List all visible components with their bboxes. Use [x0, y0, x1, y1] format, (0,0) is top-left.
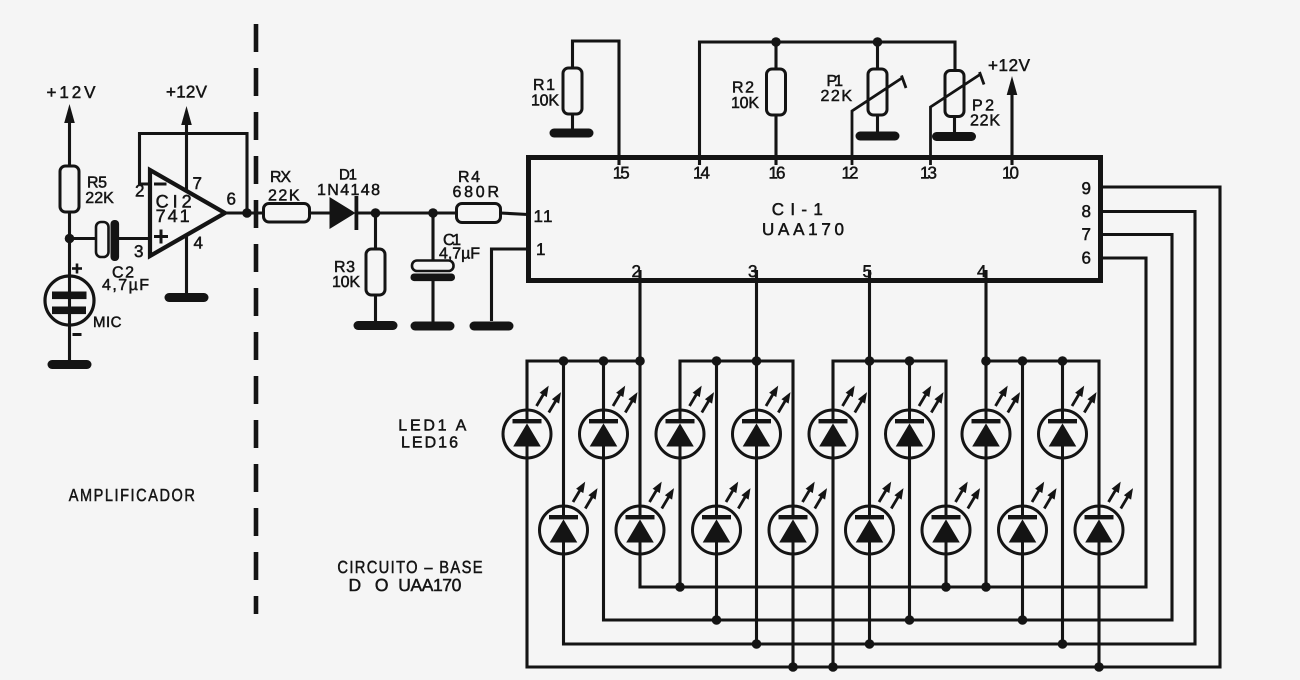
- svg-text:9: 9: [1082, 179, 1091, 198]
- svg-text:AMPLIFICADOR: AMPLIFICADOR: [69, 485, 196, 505]
- svg-text:10K: 10K: [531, 93, 559, 110]
- svg-text:2: 2: [632, 262, 641, 281]
- svg-text:4,7µF: 4,7µF: [102, 277, 149, 294]
- svg-text:10K: 10K: [332, 274, 360, 291]
- svg-text:R5: R5: [87, 175, 107, 192]
- svg-text:5: 5: [863, 262, 872, 281]
- svg-text:22K: 22K: [821, 88, 853, 105]
- svg-text:6: 6: [227, 190, 236, 209]
- svg-text:1: 1: [536, 240, 545, 259]
- svg-text:680R: 680R: [453, 184, 500, 201]
- svg-text:+12V: +12V: [988, 56, 1031, 75]
- svg-text:22K: 22K: [970, 113, 1000, 130]
- svg-text:3: 3: [134, 242, 143, 261]
- svg-text:R2: R2: [732, 80, 754, 97]
- svg-text:12: 12: [842, 164, 859, 183]
- svg-text:3: 3: [748, 262, 757, 281]
- svg-text:R1: R1: [533, 77, 555, 94]
- svg-text:D1: D1: [339, 167, 357, 184]
- svg-text:LED16: LED16: [401, 435, 458, 452]
- svg-text:CIRCUITO – BASE: CIRCUITO – BASE: [337, 557, 482, 577]
- svg-text:10: 10: [1002, 164, 1019, 183]
- svg-text:+12V: +12V: [166, 83, 208, 102]
- svg-text:4,7µF: 4,7µF: [439, 246, 480, 263]
- svg-text:10K: 10K: [731, 95, 759, 112]
- svg-text:RX: RX: [270, 169, 291, 186]
- svg-text:4: 4: [194, 234, 203, 253]
- svg-text:MIC: MIC: [93, 314, 122, 331]
- svg-text:UAA170: UAA170: [398, 575, 461, 595]
- svg-text:+12V: +12V: [47, 83, 97, 102]
- svg-text:13: 13: [920, 164, 937, 183]
- svg-text:16: 16: [769, 164, 786, 183]
- svg-text:15: 15: [613, 164, 630, 183]
- svg-text:22K: 22K: [268, 188, 300, 205]
- svg-text:4: 4: [977, 262, 986, 281]
- svg-text:6: 6: [1082, 249, 1091, 268]
- svg-text:7: 7: [1082, 225, 1091, 244]
- svg-text:11: 11: [534, 207, 553, 226]
- svg-text:8: 8: [1082, 202, 1091, 221]
- svg-text:22K: 22K: [85, 190, 114, 207]
- svg-text:14: 14: [693, 164, 710, 183]
- svg-text:2: 2: [135, 182, 144, 201]
- svg-text:1N4148: 1N4148: [317, 182, 380, 199]
- svg-text:741: 741: [156, 206, 190, 226]
- svg-text:7: 7: [193, 174, 202, 193]
